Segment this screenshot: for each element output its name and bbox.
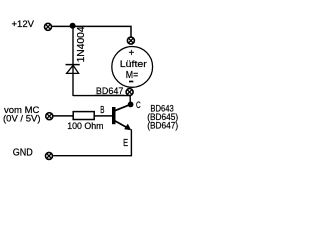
svg-text:(0V / 5V): (0V / 5V) — [3, 113, 41, 124]
svg-text:1N4004: 1N4004 — [75, 26, 87, 62]
svg-text:E: E — [123, 138, 128, 149]
terminal motor minus pad — [126, 89, 133, 96]
terminal vom MC — [46, 113, 53, 120]
wire +12V rail to motor top — [52, 26, 131, 37]
terminal +12V — [45, 23, 52, 30]
wire emitter to ground rail — [53, 129, 131, 155]
svg-text:B: B — [100, 105, 104, 116]
svg-text:100 Ohm: 100 Ohm — [67, 121, 103, 132]
svg-text:C: C — [136, 100, 141, 111]
resistor R1 100 Ohm — [73, 112, 94, 120]
svg-text:GND: GND — [13, 148, 33, 159]
wire diode branch vertical — [72, 26, 74, 96]
label motor minus — [129, 81, 133, 83]
svg-text:M=: M= — [126, 70, 139, 81]
terminal GND — [46, 152, 53, 159]
svg-text:Lüfter: Lüfter — [120, 59, 147, 70]
junction node at +12V rail — [70, 23, 76, 29]
wire base from resistor to transistor — [94, 115, 112, 117]
wire motor minus to collector node — [129, 96, 131, 105]
terminal motor plus pad — [127, 37, 134, 44]
transistor Q1 BD647 — [112, 104, 131, 130]
svg-text:+: + — [128, 48, 134, 59]
svg-text:+12V: +12V — [12, 19, 35, 30]
diode D1 1N4004 — [66, 65, 80, 74]
junction node collector — [128, 102, 134, 108]
wire vom MC to resistor — [53, 115, 73, 117]
wire diode to motor minus — [73, 95, 130, 97]
motor M1 Luefter body — [112, 47, 153, 88]
svg-text:(BD647): (BD647) — [147, 120, 178, 131]
